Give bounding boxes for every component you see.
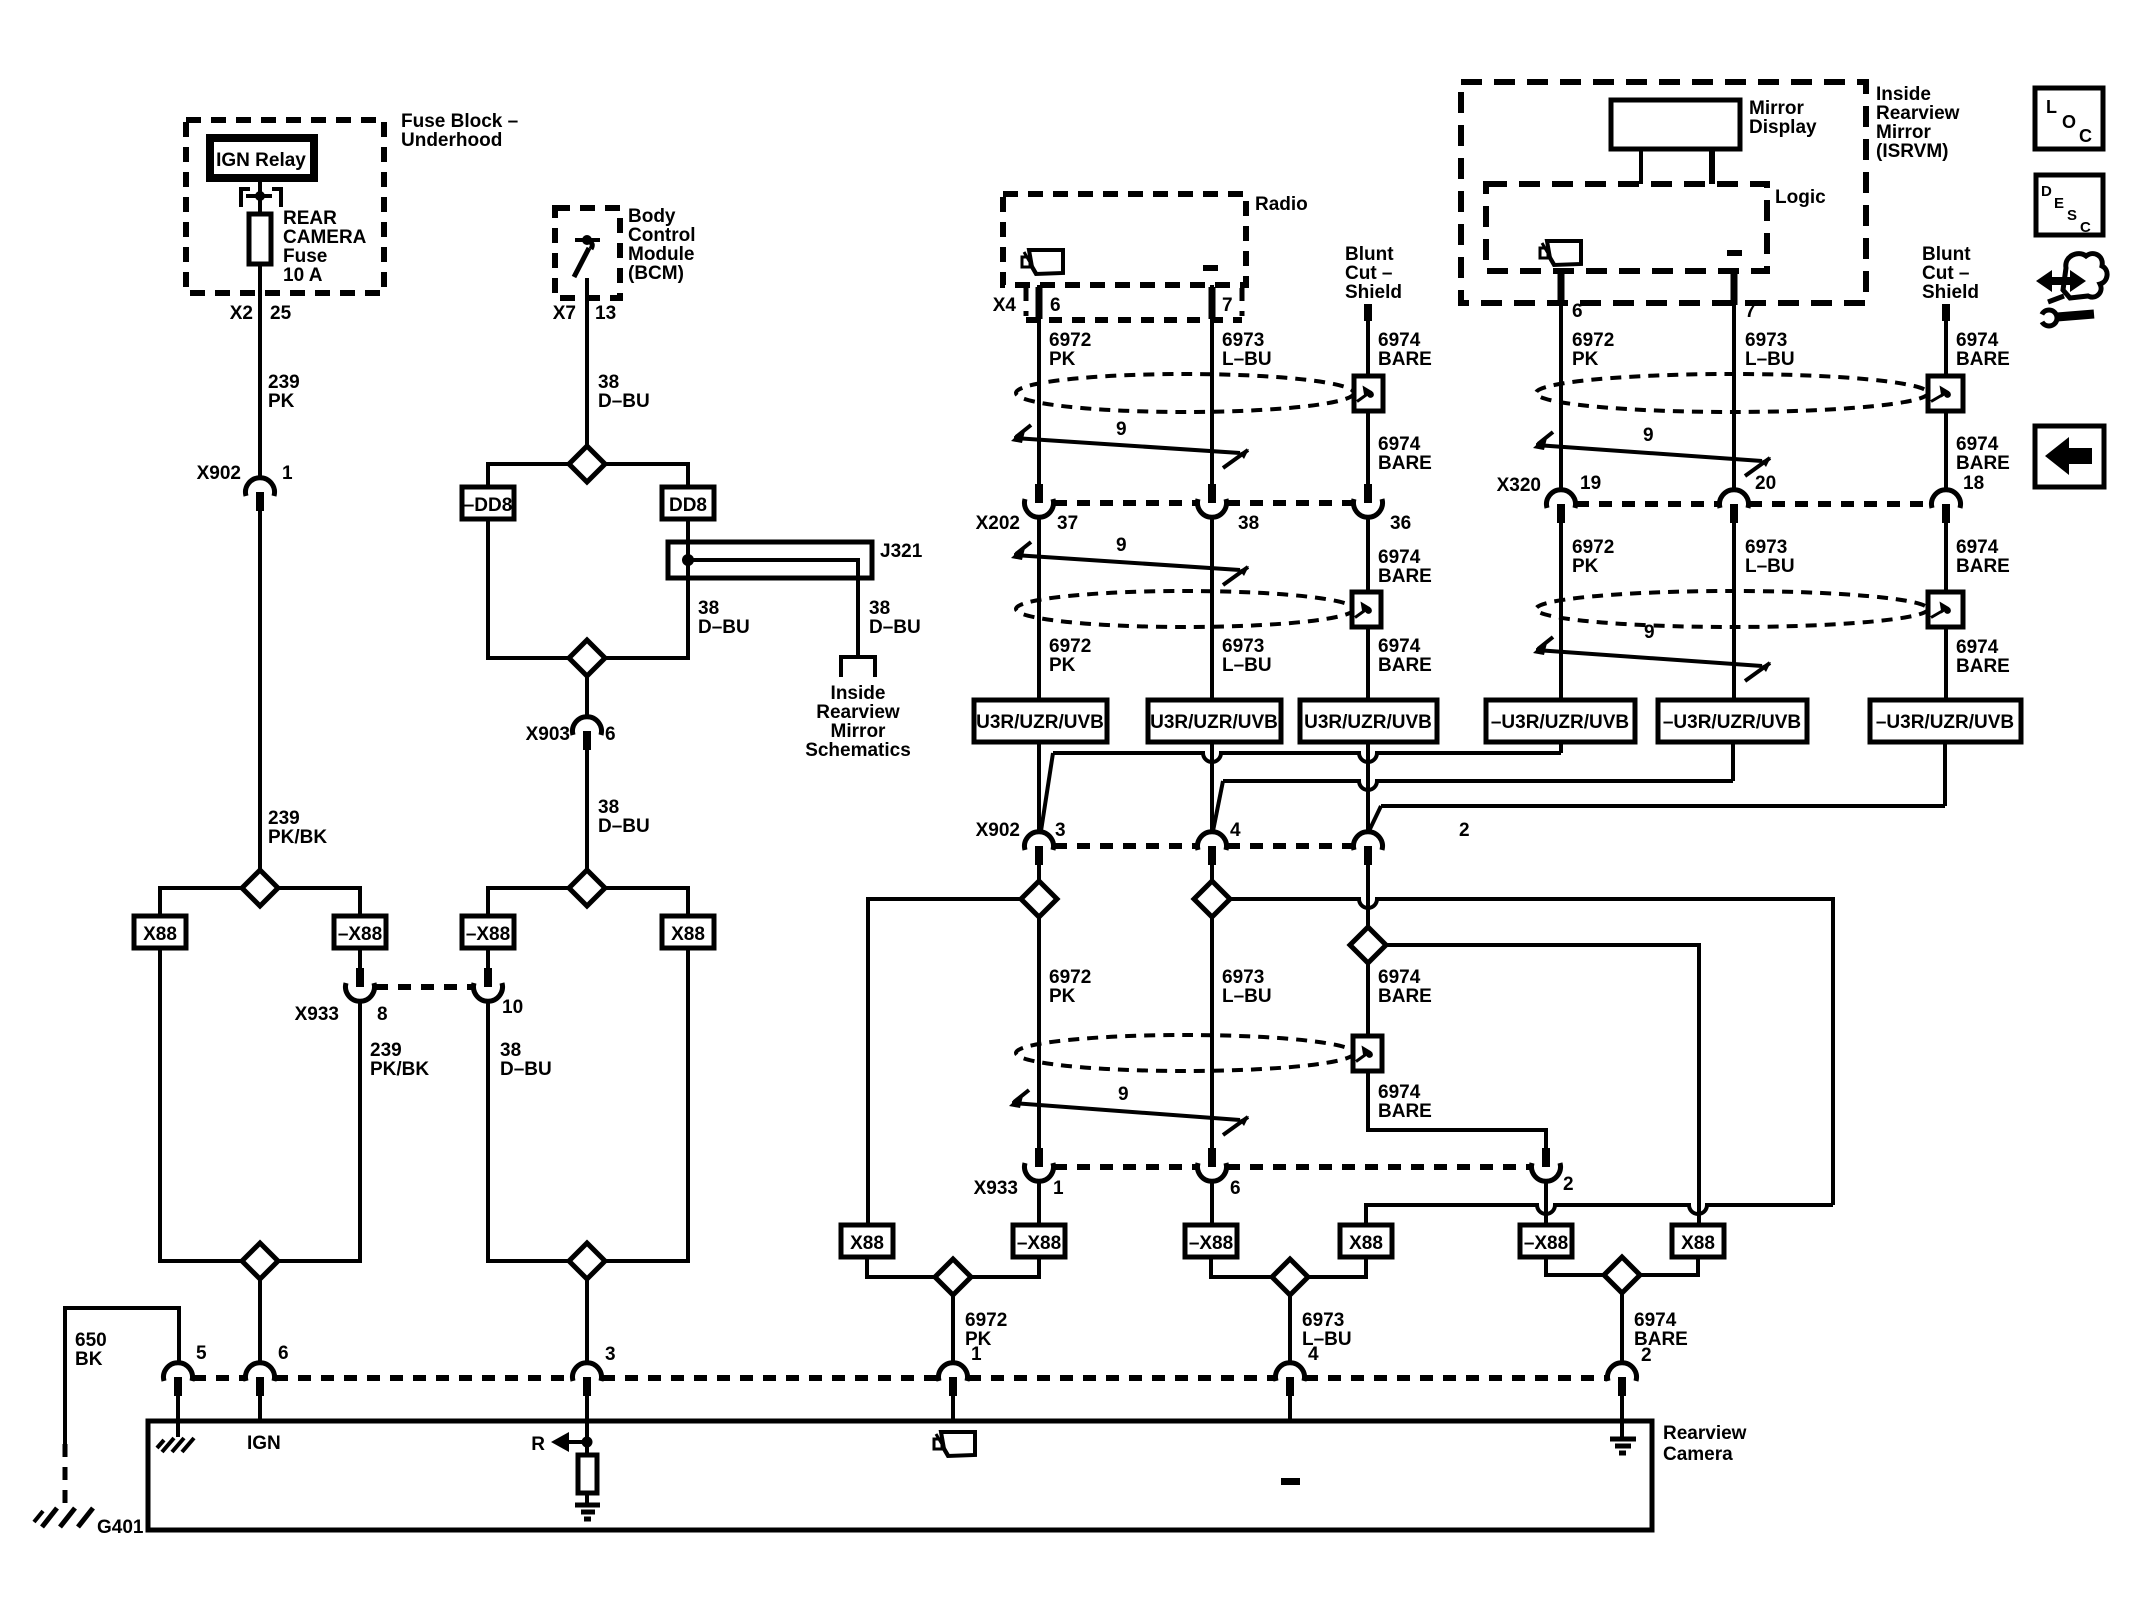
blunt cut mark right [1942, 304, 1950, 321]
svg-text:10 A: 10 A [283, 265, 323, 286]
svg-text:1: 1 [282, 463, 293, 484]
svg-text:X4: X4 [993, 295, 1017, 316]
splice diamond loopB [1211, 1257, 1273, 1277]
svg-text:O: O [2062, 112, 2076, 132]
wire L-BU splice right branch to X88 [1230, 899, 1833, 908]
wire 239 PK/BK below pin 8 [278, 1000, 360, 1261]
svg-text:X903: X903 [526, 724, 570, 745]
wire ISRVM pin 6 [1559, 271, 1563, 490]
wire J321 branch to mirror schematics [688, 560, 858, 656]
svg-text:20: 20 [1755, 473, 1776, 494]
svg-text:Rearview: Rearview [1663, 1423, 1747, 1444]
wire 6974 BARE [1366, 321, 1370, 484]
connector X903 pin 6 [585, 676, 589, 717]
svg-text:6: 6 [1230, 1178, 1241, 1199]
svg-text:239: 239 [268, 372, 300, 393]
connector box X88 loop2 [662, 916, 714, 948]
svg-text:6973: 6973 [1222, 967, 1264, 988]
wire from IGN relay through fuse to X902 [258, 181, 262, 479]
wire -U3R box6 to X902 pin 2 [1943, 742, 1947, 806]
svg-text:239: 239 [370, 1040, 402, 1061]
connector camera pin 5 [164, 1363, 193, 1381]
wires into bottom junction boxes [1037, 1180, 1041, 1225]
svg-text:–U3R/UZR/UVB: –U3R/UZR/UVB [1663, 712, 1801, 733]
svg-text:PK/BK: PK/BK [370, 1059, 429, 1080]
svg-text:L–BU: L–BU [1222, 655, 1272, 676]
svg-text:6974: 6974 [1378, 1082, 1421, 1103]
connector X933 pin 1 [1035, 1148, 1043, 1167]
svg-text:BARE: BARE [1378, 453, 1432, 474]
svg-text:D–BU: D–BU [500, 1059, 552, 1080]
svg-text:IGN Relay: IGN Relay [216, 150, 306, 171]
wire L-BU splice down [1210, 917, 1214, 1148]
svg-text:X88: X88 [850, 1233, 884, 1254]
svg-text:5: 5 [196, 1343, 207, 1364]
wire 38 D-BU below pin 10 [488, 1000, 569, 1261]
svg-text:6972: 6972 [1049, 967, 1091, 988]
svg-text:18: 18 [1963, 473, 1984, 494]
minus sign in logic [1727, 250, 1742, 256]
splice diamond left loop top [242, 870, 278, 906]
svg-text:S: S [2067, 207, 2077, 224]
display stubs [1639, 149, 1643, 184]
connector box -X88 loopA [1013, 1225, 1065, 1257]
svg-text:19: 19 [1580, 473, 1601, 494]
wire to -X88 branch [278, 888, 360, 916]
svg-text:X933: X933 [974, 1178, 1018, 1199]
option box U3R/UZR/UVB 2 [1148, 700, 1281, 742]
svg-text:Mirror: Mirror [1749, 98, 1805, 119]
svg-text:25: 25 [270, 303, 292, 324]
svg-text:PK: PK [1572, 556, 1599, 577]
svg-text:3: 3 [1055, 820, 1066, 841]
mirror display box [1611, 100, 1740, 149]
in-line harness connector J321 [668, 542, 872, 578]
wire U3R box1 to X902 pin 3 [1037, 742, 1041, 833]
svg-text:Blunt: Blunt [1922, 244, 1971, 265]
svg-text:13: 13 [595, 303, 616, 324]
wire BARE splice down [1368, 963, 1546, 1148]
svg-text:6974: 6974 [1634, 1310, 1677, 1331]
svg-text:6973: 6973 [1222, 636, 1264, 657]
svg-text:BARE: BARE [1378, 566, 1432, 587]
connector X320 pin 18 [1931, 490, 1960, 508]
svg-text:BARE: BARE [1956, 556, 2010, 577]
svg-text:239: 239 [268, 808, 300, 829]
svg-text:D–BU: D–BU [698, 617, 750, 638]
svg-text:J321: J321 [880, 541, 923, 562]
svg-text:L–BU: L–BU [1222, 349, 1272, 370]
dashed connector line X902 [1054, 843, 1197, 849]
shield ellipse ISRVM 2 [1536, 591, 1928, 627]
svg-text:Rearview: Rearview [816, 702, 900, 723]
svg-text:37: 37 [1057, 513, 1078, 534]
dashed connector line X933 8-10 [375, 984, 473, 990]
svg-text:Rearview: Rearview [1876, 103, 1960, 124]
junction dot J321 [682, 554, 694, 566]
svg-text:CAMERA: CAMERA [283, 227, 367, 248]
svg-text:BARE: BARE [1378, 349, 1432, 370]
icon connector tools (arrows and wrench) [2036, 270, 2086, 292]
svg-text:4: 4 [1230, 820, 1241, 841]
shield ellipse ISRVM 1 [1536, 374, 1928, 412]
svg-text:D–BU: D–BU [598, 816, 650, 837]
svg-text:PK: PK [1049, 349, 1076, 370]
wires X202 to U3R boxes [1037, 516, 1041, 700]
icon LOC [2035, 88, 2103, 149]
svg-text:6972: 6972 [965, 1310, 1007, 1331]
fuse block underhood dashed box [186, 120, 384, 293]
svg-text:U3R/UZR/UVB: U3R/UZR/UVB [1304, 712, 1432, 733]
svg-text:Shield: Shield [1345, 282, 1402, 303]
wire to -DD8 [488, 464, 569, 487]
connector X320 pin 19 [1547, 490, 1576, 508]
svg-text:6973: 6973 [1745, 330, 1787, 351]
svg-text:BARE: BARE [1378, 986, 1432, 1007]
svg-text:X2: X2 [230, 303, 253, 324]
connector box -X88 loopC [1520, 1225, 1572, 1257]
svg-text:6972: 6972 [1049, 330, 1091, 351]
svg-text:BARE: BARE [1956, 453, 2010, 474]
wire 6972 PK to camera pin 1 [951, 1295, 955, 1364]
wire -U3R box4 to X902 pin 3 [1559, 742, 1563, 753]
body control module dashed box [555, 208, 620, 298]
svg-text:IGN: IGN [247, 1433, 281, 1454]
svg-text:6974: 6974 [1956, 434, 1999, 455]
splice diamond DD8 loop top [569, 446, 605, 482]
svg-text:–X88: –X88 [338, 924, 382, 945]
wire PK splice to X88 branch [868, 899, 1021, 1225]
connector box DD8 [662, 487, 714, 519]
connector X933 pin 8 [358, 948, 362, 968]
svg-text:Cut –: Cut – [1345, 263, 1393, 284]
svg-text:6: 6 [278, 1343, 289, 1364]
svg-text:–X88: –X88 [1524, 1233, 1568, 1254]
svg-text:BARE: BARE [1956, 349, 2010, 370]
svg-text:Control: Control [628, 225, 696, 246]
connector camera pin 1 [938, 1363, 967, 1381]
connector X4 dashed pocket [1024, 288, 1029, 316]
connector camera pin 4 [1275, 1363, 1304, 1381]
camera icon in radio [1029, 250, 1063, 274]
svg-text:1: 1 [971, 1344, 982, 1365]
svg-text:D–BU: D–BU [598, 391, 650, 412]
svg-text:Radio: Radio [1255, 194, 1308, 215]
wire 38 D-BU to second loop [585, 750, 589, 870]
splice diamond left loop bottom [242, 1243, 278, 1279]
blunt cut mark [1364, 304, 1372, 321]
svg-text:6972: 6972 [1572, 537, 1614, 558]
splice diamond loopC [1546, 1257, 1605, 1275]
svg-text:6973: 6973 [1222, 330, 1264, 351]
svg-text:BK: BK [75, 1349, 103, 1370]
wire to DD8 [605, 464, 688, 487]
svg-text:Display: Display [1749, 117, 1817, 138]
svg-text:6: 6 [605, 724, 616, 745]
svg-text:9: 9 [1116, 535, 1127, 556]
svg-text:D–BU: D–BU [869, 617, 921, 638]
twisted pair 9 camera [1012, 1103, 1240, 1120]
svg-text:X902: X902 [976, 820, 1020, 841]
svg-text:–X88: –X88 [1017, 1233, 1061, 1254]
svg-text:–U3R/UZR/UVB: –U3R/UZR/UVB [1876, 712, 2014, 733]
option box U3R/UZR/UVB 3 [1300, 700, 1437, 742]
connector X202 pin 36 [1364, 484, 1372, 503]
fuse F: REAR CAMERA Fuse 10A [249, 214, 271, 264]
ground under resistor [575, 1505, 600, 1519]
svg-text:REAR: REAR [283, 208, 337, 229]
wire to -X88 loop2 [488, 888, 569, 916]
wire DD8 down through J321 [605, 519, 688, 658]
svg-text:9: 9 [1644, 622, 1655, 643]
svg-text:6973: 6973 [1745, 537, 1787, 558]
icon DESC [2036, 175, 2103, 235]
icon back arrow [2035, 426, 2104, 487]
svg-text:PK/BK: PK/BK [268, 827, 327, 848]
option box -U3R/UZR/UVB 6 [1870, 700, 2021, 742]
option box -U3R/UZR/UVB 4 [1486, 700, 1635, 742]
svg-text:L–BU: L–BU [1745, 349, 1795, 370]
connector camera pin 6 [246, 1363, 275, 1381]
svg-text:–DD8: –DD8 [464, 495, 513, 516]
connector X902 pin 1 [245, 478, 274, 496]
wire 6974 BARE to camera pin 2 [1620, 1293, 1624, 1364]
relay K: IGN Relay box [210, 138, 314, 178]
splice diamond loopA [867, 1257, 936, 1277]
svg-text:L–BU: L–BU [1222, 986, 1272, 1007]
wire 38 D-BU from BCM [585, 278, 589, 446]
shield ellipse camera [1016, 1035, 1354, 1071]
svg-text:DD8: DD8 [669, 495, 707, 516]
connector box -X88 loop2 [462, 916, 514, 948]
wire 650 BK [65, 1308, 179, 1444]
svg-text:D: D [2041, 183, 2052, 200]
wire to X88 branch [160, 888, 242, 916]
wire 239 PK/BK [258, 511, 262, 870]
shield box camera [1353, 1036, 1382, 1071]
svg-text:6973: 6973 [1302, 1310, 1344, 1331]
wire -DD8 down [488, 519, 569, 658]
svg-text:650: 650 [75, 1330, 107, 1351]
wire X88 loop2 down [605, 948, 688, 1261]
option box -U3R/UZR/UVB 5 [1658, 700, 1807, 742]
svg-text:4: 4 [1308, 1344, 1319, 1365]
svg-text:(BCM): (BCM) [628, 263, 684, 284]
svg-text:R: R [531, 1434, 545, 1455]
wire to X88 loop2 [605, 888, 688, 916]
svg-text:G401: G401 [97, 1517, 144, 1538]
svg-text:PK: PK [1049, 986, 1076, 1007]
dashed connector line X320 [1576, 501, 1719, 507]
wire U3R box3 to X902 pin 2 [1366, 742, 1370, 833]
svg-text:36: 36 [1390, 513, 1411, 534]
svg-text:C: C [2080, 219, 2091, 236]
svg-text:8: 8 [377, 1004, 388, 1025]
wire to camera pin 3 [585, 1279, 589, 1364]
connector box X88 loopC [1672, 1225, 1724, 1257]
off-page bracket [841, 657, 875, 677]
splice diamond X88 loop2 top [569, 870, 605, 906]
chassis ground pin 5 [157, 1438, 194, 1452]
svg-text:6974: 6974 [1378, 636, 1421, 657]
twisted pair 9 ISRVM 1 [1536, 445, 1762, 461]
connector box -X88 loopB [1185, 1225, 1237, 1257]
connector X202 pin 37 [1035, 484, 1043, 503]
connector X202 pin 38 [1208, 484, 1216, 503]
shield box ISRVM 1 [1928, 376, 1963, 411]
svg-text:Fuse: Fuse [283, 246, 327, 267]
svg-text:2: 2 [1459, 820, 1470, 841]
connector X933 pin 6 [1208, 1148, 1216, 1167]
connector X320 pin 20 [1720, 490, 1749, 508]
svg-text:7: 7 [1222, 295, 1233, 316]
wire PK splice down [1037, 917, 1041, 1148]
switch S inside BCM [575, 238, 600, 242]
connector box X88 loopB [1340, 1225, 1392, 1257]
connector box -DD8 [462, 487, 514, 519]
svg-text:Inside: Inside [1876, 84, 1931, 105]
svg-text:BARE: BARE [1956, 656, 2010, 677]
connector X902 pin 2 [1353, 832, 1382, 850]
svg-text:10: 10 [502, 997, 523, 1018]
wire -U3R box5 to X902 pin 4 [1731, 742, 1735, 781]
minus sign pin 4 [1281, 1478, 1300, 1485]
svg-text:38: 38 [500, 1040, 521, 1061]
wire 6972 PK radio [1037, 285, 1041, 484]
twisted pair 9 radio 2 [1014, 555, 1240, 570]
svg-text:–X88: –X88 [1189, 1233, 1233, 1254]
svg-text:3: 3 [605, 1344, 616, 1365]
svg-text:X88: X88 [1349, 1233, 1383, 1254]
wire 6973 L-BU radio [1210, 285, 1214, 484]
twisted pair 9 radio 1 [1014, 438, 1240, 453]
svg-text:L: L [2046, 97, 2057, 117]
radio dashed box [1003, 194, 1246, 285]
svg-text:9: 9 [1118, 1084, 1129, 1105]
svg-text:BARE: BARE [1378, 1101, 1432, 1122]
svg-text:6974: 6974 [1378, 434, 1421, 455]
ground pin 2 [1610, 1439, 1636, 1453]
ISRVM pin stubs [1558, 271, 1565, 305]
svg-text:Camera: Camera [1663, 1444, 1733, 1465]
svg-text:38: 38 [598, 797, 619, 818]
svg-text:Underhood: Underhood [401, 130, 502, 151]
svg-text:U3R/UZR/UVB: U3R/UZR/UVB [976, 712, 1104, 733]
dashed connector line camera [193, 1375, 245, 1381]
svg-text:38: 38 [869, 598, 890, 619]
svg-text:6: 6 [1050, 295, 1061, 316]
svg-text:PK: PK [1049, 655, 1076, 676]
svg-text:–U3R/UZR/UVB: –U3R/UZR/UVB [1491, 712, 1629, 733]
inside rearview mirror dashed box [1461, 82, 1866, 303]
radio pin stubs [1036, 287, 1043, 319]
shield box radio 2 [1352, 592, 1381, 627]
shield ellipse radio 1 [1016, 374, 1354, 412]
svg-text:U3R/UZR/UVB: U3R/UZR/UVB [1150, 712, 1278, 733]
splice diamond X88 loop2 bottom [569, 1243, 605, 1279]
wire ISRVM pin 7 [1732, 271, 1736, 490]
connector X933 pin 2 [1542, 1148, 1550, 1167]
svg-text:6974: 6974 [1956, 637, 1999, 658]
svg-text:BARE: BARE [1378, 655, 1432, 676]
svg-text:X7: X7 [553, 303, 576, 324]
shield box radio 1 [1354, 376, 1383, 411]
camera icon in logic [1547, 241, 1581, 265]
svg-text:6974: 6974 [1378, 547, 1421, 568]
svg-text:X320: X320 [1497, 475, 1541, 496]
svg-text:1: 1 [1053, 1178, 1064, 1199]
svg-text:Module: Module [628, 244, 695, 265]
svg-text:X88: X88 [143, 924, 177, 945]
minus sign in radio [1203, 265, 1218, 271]
svg-text:Schematics: Schematics [805, 740, 911, 761]
logic dashed box [1486, 184, 1767, 271]
wire BARE splice right branch to X88 [1386, 945, 1699, 1225]
svg-text:X202: X202 [976, 513, 1020, 534]
svg-text:9: 9 [1643, 425, 1654, 446]
svg-text:(ISRVM): (ISRVM) [1876, 141, 1948, 162]
connector camera pin 3 [573, 1363, 602, 1381]
ground G401 [42, 1508, 93, 1527]
splice diamond L-BU [1210, 865, 1214, 881]
svg-text:Blunt: Blunt [1345, 244, 1394, 265]
shield box ISRVM 2 [1928, 592, 1963, 627]
resistor R [578, 1455, 597, 1493]
rearview camera box [148, 1421, 1652, 1530]
svg-text:L–BU: L–BU [1745, 556, 1795, 577]
svg-text:Fuse Block –: Fuse Block – [401, 111, 518, 132]
connector box X88 [134, 916, 186, 948]
wire X902 pin2 down to BARE splice [1366, 865, 1370, 927]
svg-text:X933: X933 [295, 1004, 339, 1025]
svg-text:7: 7 [1745, 301, 1756, 322]
connector X902 pin 3 [1025, 832, 1054, 850]
camera icon pin 1 [941, 1432, 975, 1456]
svg-text:Shield: Shield [1922, 282, 1979, 303]
svg-text:2: 2 [1641, 1345, 1652, 1366]
svg-text:X88: X88 [1681, 1233, 1715, 1254]
wire 6974 BARE right [1944, 321, 1948, 490]
svg-text:X902: X902 [197, 463, 241, 484]
connector X902 pin 4 [1198, 832, 1227, 850]
svg-text:6974: 6974 [1378, 967, 1421, 988]
pin wires into camera [176, 1396, 180, 1437]
svg-text:–X88: –X88 [466, 924, 510, 945]
wires X320 to -U3R boxes [1559, 523, 1563, 700]
svg-text:Logic: Logic [1775, 187, 1826, 208]
svg-text:2: 2 [1563, 1174, 1574, 1195]
svg-text:6974: 6974 [1956, 330, 1999, 351]
splice diamond PK [1037, 865, 1041, 881]
svg-text:Mirror: Mirror [831, 721, 887, 742]
svg-text:X88: X88 [671, 924, 705, 945]
wire U3R box2 to X902 pin 4 [1210, 742, 1214, 833]
wire 6973 L-BU to camera pin 4 [1288, 1295, 1292, 1364]
svg-text:PK: PK [268, 391, 295, 412]
dashed connector line X933 [1054, 1164, 1197, 1170]
svg-text:6: 6 [1572, 301, 1583, 322]
option box U3R/UZR/UVB 1 [974, 700, 1107, 742]
shield ellipse radio 2 [1016, 591, 1354, 627]
dashed wire to G401 [63, 1444, 68, 1508]
svg-text:6974: 6974 [1956, 537, 1999, 558]
connector X933 pin 10 [486, 948, 490, 968]
connector box X88 loopA [841, 1225, 893, 1257]
connector box -X88 [334, 916, 386, 948]
splice diamond DD8 loop bottom [569, 640, 605, 676]
svg-text:C: C [2079, 126, 2092, 146]
wire to camera pin 6 [258, 1279, 262, 1364]
